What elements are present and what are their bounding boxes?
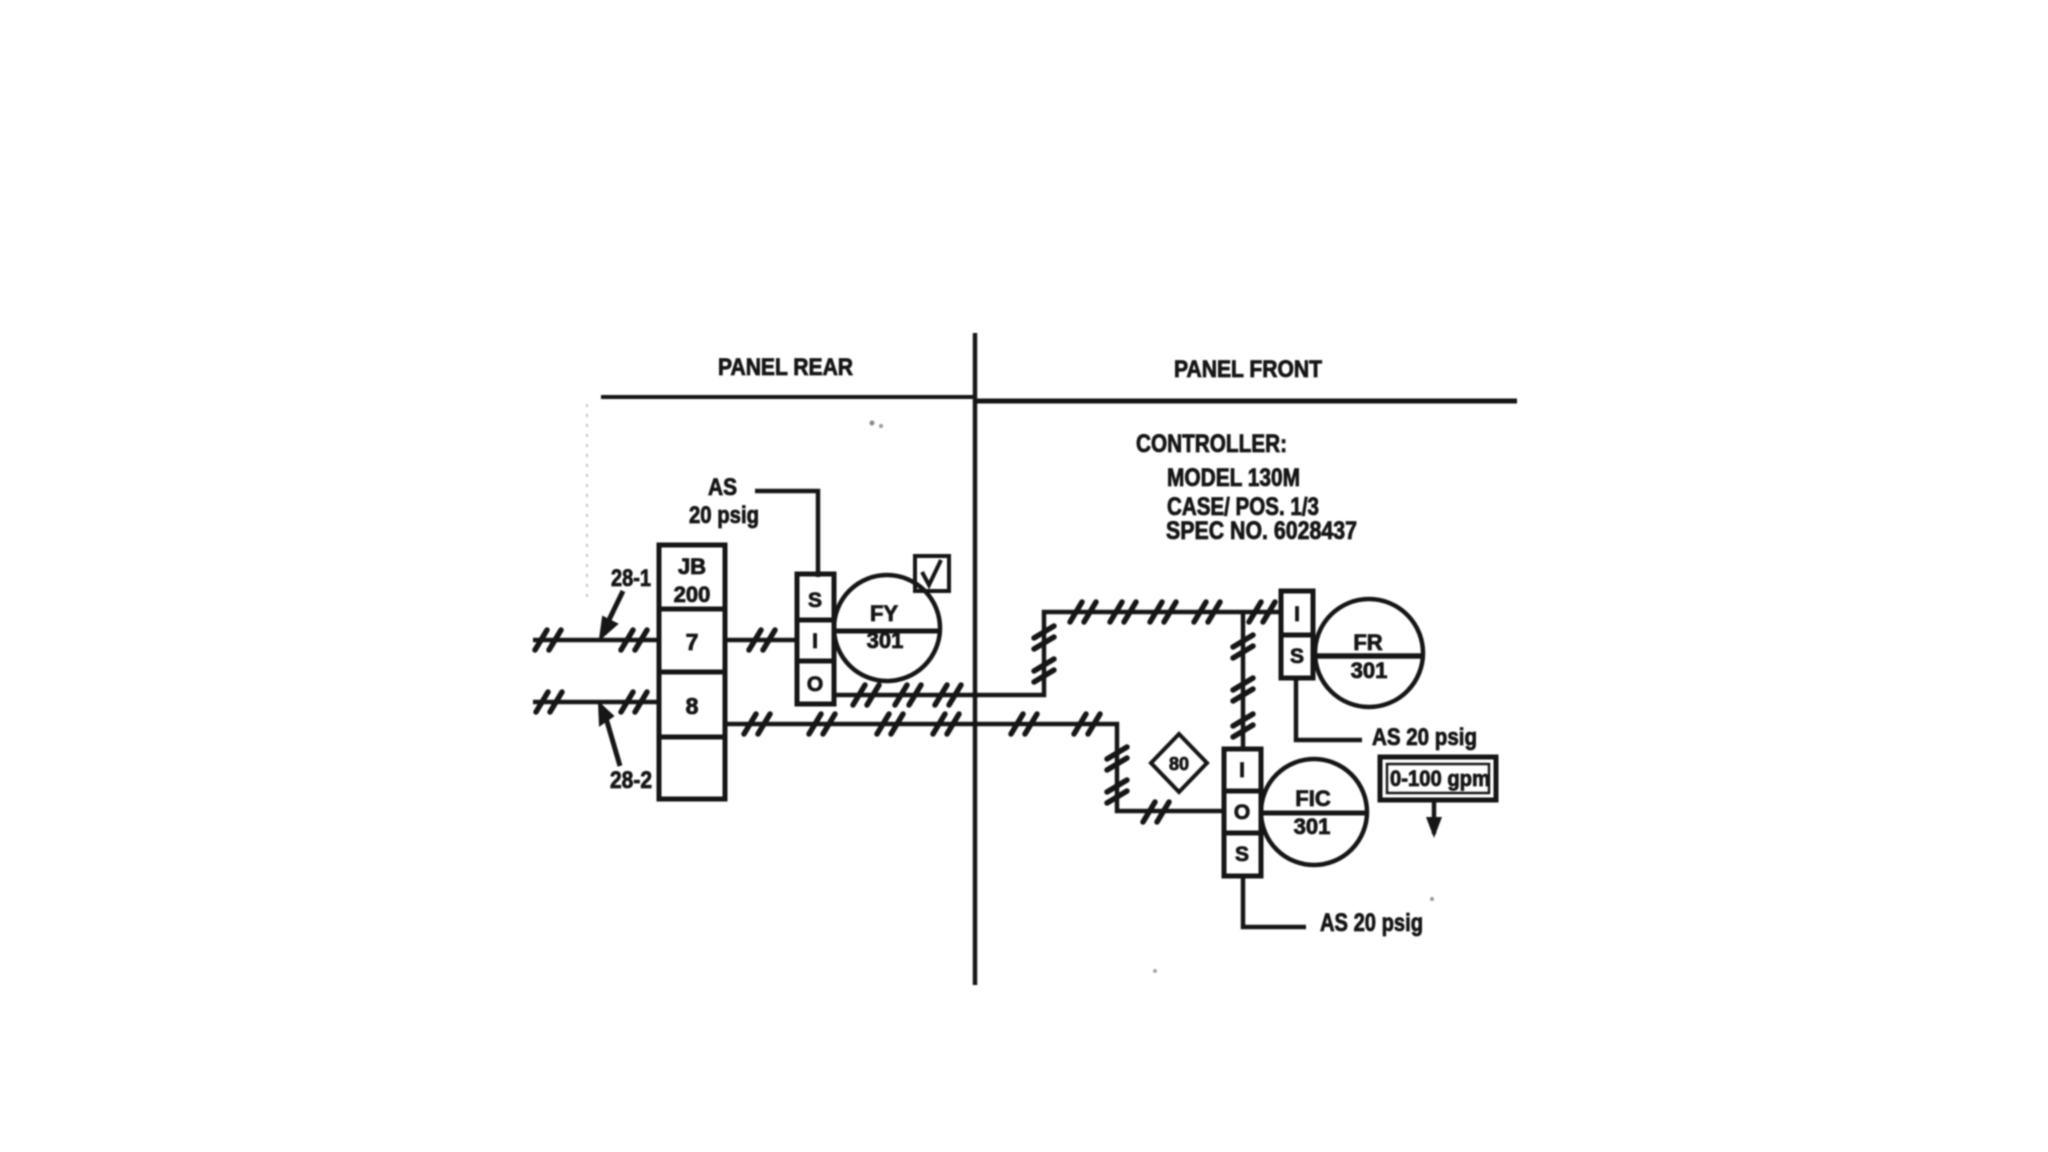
svg-text:I: I bbox=[812, 630, 818, 653]
svg-text:28-2: 28-2 bbox=[610, 767, 652, 794]
svg-text:20 psig: 20 psig bbox=[689, 502, 759, 529]
svg-text:AS 20 psig: AS 20 psig bbox=[1372, 724, 1477, 751]
wire air supply to FY S port bbox=[755, 491, 818, 577]
svg-text:FY: FY bbox=[870, 601, 898, 626]
instrument FR301 bbox=[1315, 599, 1423, 707]
svg-text:I: I bbox=[1294, 603, 1300, 626]
svg-text:28-1: 28-1 bbox=[611, 565, 651, 592]
svg-text:0-100 gpm: 0-100 gpm bbox=[1390, 766, 1490, 791]
header line panel rear bbox=[601, 395, 976, 399]
svg-text:301: 301 bbox=[1294, 814, 1331, 839]
wire signal 28-2 into JB terminal 8 bbox=[533, 700, 659, 705]
node 80 diamond tag bbox=[1151, 734, 1207, 792]
scale arrow bbox=[1432, 800, 1437, 834]
instrument FIC301 bbox=[1261, 759, 1367, 865]
junction box JB200 bbox=[659, 545, 725, 799]
scan specks bbox=[870, 421, 875, 426]
svg-text:80: 80 bbox=[1169, 754, 1189, 774]
svg-text:AS: AS bbox=[708, 474, 737, 501]
FR301 IS terminal stack bbox=[1281, 591, 1313, 678]
wire branch down to FIC I input bbox=[1241, 612, 1246, 749]
svg-text:O: O bbox=[1234, 801, 1250, 824]
svg-text:FIC: FIC bbox=[1295, 786, 1331, 811]
svg-text:301: 301 bbox=[867, 628, 904, 653]
svg-text:SPEC NO. 6028437: SPEC NO. 6028437 bbox=[1166, 517, 1357, 545]
svg-text:O: O bbox=[807, 673, 823, 696]
FY301 SIO terminal stack bbox=[797, 574, 834, 704]
header line panel front bbox=[974, 399, 1517, 404]
checkmark box bbox=[915, 556, 949, 591]
wire JB terminal 8 to FIC input bbox=[725, 724, 1225, 811]
svg-text:I: I bbox=[1239, 759, 1245, 782]
wire air supply to FR S port bbox=[1296, 678, 1362, 740]
svg-text:S: S bbox=[1290, 645, 1304, 668]
scale range tag 0-100 gpm bbox=[1380, 757, 1496, 800]
svg-text:301: 301 bbox=[1351, 658, 1388, 683]
svg-text:MODEL 130M: MODEL 130M bbox=[1167, 464, 1300, 492]
svg-text:CONTROLLER:: CONTROLLER: bbox=[1136, 430, 1287, 458]
svg-text:S: S bbox=[1235, 843, 1249, 866]
svg-text:AS 20 psig: AS 20 psig bbox=[1320, 909, 1423, 937]
wire JB terminal 7 to FY input bbox=[725, 638, 797, 643]
svg-text:PANEL REAR: PANEL REAR bbox=[718, 354, 853, 381]
svg-text:FR: FR bbox=[1353, 630, 1382, 655]
svg-text:PANEL FRONT: PANEL FRONT bbox=[1174, 356, 1322, 383]
wire signal 28-1 into JB terminal 7 bbox=[533, 638, 659, 643]
svg-text:200: 200 bbox=[674, 582, 711, 607]
svg-text:7: 7 bbox=[686, 629, 699, 655]
wire FY output to FR input bbox=[834, 612, 1283, 695]
panel divider line bbox=[973, 333, 978, 985]
svg-text:S: S bbox=[808, 589, 822, 612]
svg-text:8: 8 bbox=[686, 693, 699, 719]
svg-text:JB: JB bbox=[678, 554, 706, 579]
wire air supply to FIC S port bbox=[1243, 876, 1306, 927]
scan artifact dotted line bbox=[586, 404, 588, 598]
FIC301 IOS terminal stack bbox=[1224, 749, 1261, 876]
instrument FY301 bbox=[834, 575, 940, 681]
